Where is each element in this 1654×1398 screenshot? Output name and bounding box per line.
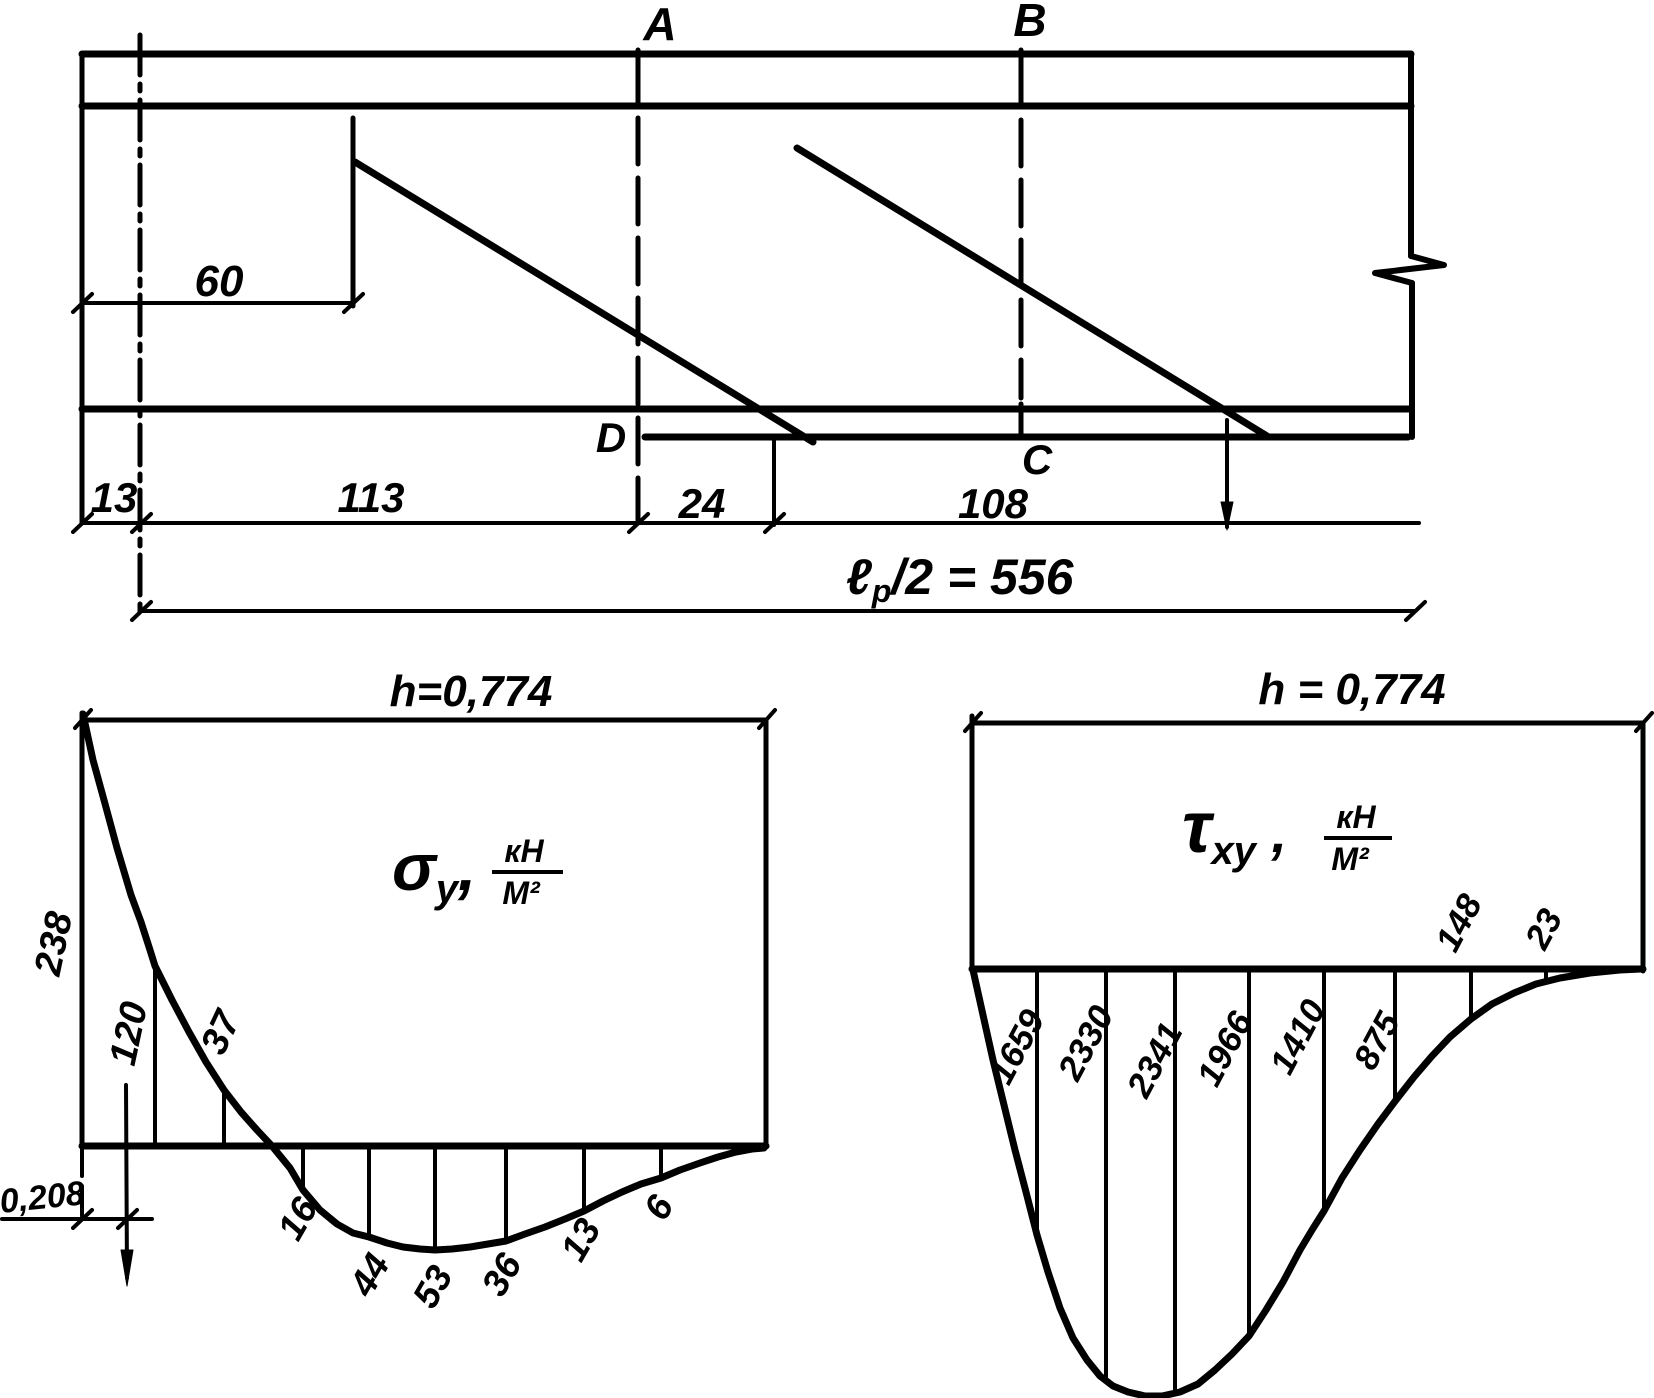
svg-text:B: B	[1013, 0, 1046, 46]
svg-text:h = 0,774: h = 0,774	[1258, 665, 1445, 714]
beam left edge	[80, 54, 85, 523]
centerline dash-dot	[138, 35, 143, 612]
sigma ordinate 120	[153, 966, 157, 1146]
svg-text:36: 36	[474, 1246, 530, 1303]
svg-text:875: 875	[1346, 1006, 1408, 1076]
tick 0208 x127	[118, 1210, 137, 1228]
dimension line 60	[82, 301, 353, 305]
svg-text:238: 238	[27, 907, 82, 980]
beam flange bottom line	[82, 103, 1411, 110]
arrowhead 108 end	[1221, 502, 1233, 530]
beam web bottom line	[82, 406, 1411, 413]
svg-text:A: A	[642, 0, 676, 50]
sigma top tick right	[759, 710, 775, 728]
tick lp2 right	[1406, 602, 1425, 620]
section line B tick bottom	[1019, 404, 1024, 436]
tau hatch 2341	[1173, 969, 1177, 1393]
extension line 24 end	[772, 437, 776, 525]
svg-text:60: 60	[195, 257, 244, 306]
tick lp2 left	[132, 602, 151, 620]
sigma baseline	[82, 1143, 766, 1150]
dimension line 13-113-24-108	[82, 521, 1419, 525]
sigma box right	[764, 720, 769, 1147]
tick dim x638	[629, 514, 648, 532]
sigma hatch 36	[504, 1146, 508, 1241]
svg-text:σy,: σy,	[392, 830, 476, 911]
beam top line	[82, 51, 1411, 58]
0,208 level line	[2, 1217, 152, 1221]
svg-text:113: 113	[338, 474, 405, 521]
tau box left	[970, 716, 975, 969]
svg-text:τxy ,: τxy ,	[1182, 788, 1287, 873]
svg-text:24: 24	[678, 480, 726, 527]
svg-text:23: 23	[1517, 902, 1570, 956]
beam right edge lower	[1409, 283, 1415, 437]
svg-text:6: 6	[636, 1188, 682, 1227]
sigma hatch 16	[301, 1146, 305, 1190]
section line B solid top	[1019, 50, 1024, 106]
tau hatch 1410	[1322, 969, 1326, 1209]
tau units bar	[1324, 836, 1392, 840]
tau box right	[1641, 723, 1646, 971]
sigma hatch 53	[433, 1146, 437, 1249]
sigma hatch 44	[367, 1146, 371, 1236]
svg-text:148: 148	[1428, 888, 1490, 958]
extension arrow at 108 end	[1225, 420, 1229, 527]
svg-text:13: 13	[91, 474, 138, 521]
svg-text:120: 120	[102, 998, 156, 1069]
svg-text:кH: кH	[1336, 799, 1376, 835]
beam right edge upper	[1408, 54, 1414, 256]
sigma hatch 6	[659, 1146, 663, 1178]
tau top tick right	[1636, 713, 1652, 731]
diagonal bar 2	[797, 148, 1267, 436]
tau hatch 148	[1469, 969, 1473, 1019]
sigma box left	[80, 713, 85, 1146]
svg-text:16: 16	[270, 1190, 326, 1247]
sigma top tick left	[75, 710, 91, 728]
tau baseline	[972, 966, 1643, 973]
svg-text:кH: кH	[504, 833, 544, 869]
sigma ordinate 37	[222, 1092, 226, 1146]
tau hatch 1966	[1247, 969, 1251, 1334]
tau hatch 23	[1544, 969, 1548, 981]
sigma diagram box top	[82, 718, 766, 723]
tau diagram box top	[972, 721, 1643, 726]
svg-text:44: 44	[341, 1247, 398, 1304]
tick 60 right	[344, 294, 363, 312]
down arrowhead	[121, 1250, 133, 1286]
diagonal bar 1	[355, 162, 813, 442]
svg-text:ℓp/2 = 556: ℓp/2 = 556	[846, 549, 1075, 609]
sigma curve	[83, 714, 764, 1250]
beam shelf line	[645, 434, 1408, 441]
tick 60 left	[73, 294, 92, 312]
dimension line lp/2	[141, 609, 1415, 613]
tick 0208 x82	[73, 1210, 92, 1228]
section line B dashed	[1019, 120, 1024, 398]
bar cutoff vertical 60	[351, 118, 356, 306]
sigma hatch 13	[582, 1146, 586, 1211]
svg-text:C: C	[1022, 436, 1053, 483]
svg-text:108: 108	[958, 480, 1029, 527]
tick dim x141	[132, 514, 151, 532]
down arrow line	[126, 1085, 127, 1278]
section line A dashed	[636, 118, 641, 523]
tick dim x82	[73, 514, 92, 532]
tau hatch 1659	[1035, 969, 1039, 1235]
svg-text:2341: 2341	[1119, 1016, 1190, 1104]
sigma left edge below baseline	[80, 1146, 84, 1220]
svg-text:53: 53	[405, 1258, 461, 1315]
beam right edge break zigzag	[1375, 256, 1444, 283]
svg-text:2330: 2330	[1050, 999, 1122, 1087]
tau hatch 2330	[1104, 969, 1108, 1377]
tau curve	[973, 969, 1641, 1396]
sigma units bar	[492, 870, 563, 874]
svg-text:M²: M²	[1331, 841, 1370, 877]
svg-text:0,208: 0,208	[0, 1174, 87, 1221]
svg-text:M²: M²	[502, 875, 541, 911]
svg-text:h=0,774: h=0,774	[390, 667, 553, 716]
svg-text:D: D	[596, 414, 626, 461]
tau hatch 875	[1393, 969, 1397, 1103]
tau top tick left	[965, 713, 981, 731]
section line A solid top	[636, 50, 641, 106]
tick dim x774	[765, 514, 784, 532]
